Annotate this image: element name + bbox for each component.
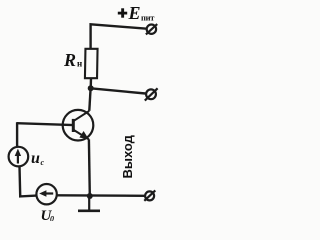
svg-text:0: 0 [50,215,54,222]
wire top rail (terminal to corner above resistor) [91,24,147,49]
wire collector (node to transistor) [89,88,90,111]
ground [78,198,100,211]
label +Eпит [118,3,155,23]
wire base (left corner to transistor base bar) [17,123,74,125]
svg-text:пит: пит [141,13,155,23]
label U0 [41,208,55,224]
source uc (signal source, circle with up arrow) [9,147,29,167]
node A (collector junction dot) [88,85,94,91]
svg-text:н: н [77,59,82,69]
wire left vertical lower (source uc to bottom corner) [20,166,37,196]
label R_n [63,50,82,70]
wire emitter (transistor to bottom node) [88,139,91,196]
resistor R_n [85,49,98,78]
svg-text:Выход: Выход [120,134,135,178]
svg-text:u: u [31,150,40,167]
node B (emitter/ground junction dot) [87,193,93,199]
wire resistor bottom lead [89,78,92,89]
label uc [31,150,45,167]
wire left vertical upper (corner to source uc) [16,122,18,147]
transistor VT1 (NPN) [63,110,94,141]
svg-text:R: R [63,50,76,70]
terminal output bottom [144,190,155,200]
svg-text:E: E [128,3,141,23]
terminal +E (top right) [146,24,157,34]
wire bottom rail (source U0 to bottom output terminal) [57,194,146,197]
svg-text:c: c [41,158,45,167]
wire collector node to top output terminal [91,88,146,93]
source U0 (bias source, circle with left arrow) [36,184,56,204]
terminal output top [145,88,158,100]
